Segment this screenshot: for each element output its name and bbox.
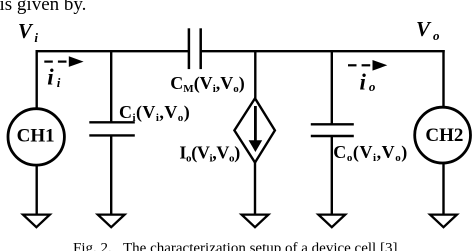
svg-text:is given by.: is given by.	[0, 0, 86, 15]
svg-text:CH1: CH1	[17, 126, 55, 147]
svg-text:CM(Vi,Vo): CM(Vi,Vo)	[170, 73, 244, 95]
svg-text:io: io	[360, 70, 376, 95]
svg-text:Io(Vi,Vo): Io(Vi,Vo)	[179, 142, 240, 164]
current arrow i_o (dashed)	[348, 60, 387, 71]
wire: I_o branch upper	[254, 51, 256, 99]
wire: right vertical (Vo node down to CH2)	[442, 50, 444, 106]
label I_o(Vi,Vo)	[179, 142, 240, 164]
caption: Fig. 2. The characterization setup of a device cell [3]	[73, 241, 397, 251]
current source arrow	[249, 106, 263, 152]
ground (C_i)	[98, 215, 125, 228]
wire: C_i branch lower	[110, 135, 112, 214]
svg-text:ii: ii	[47, 64, 60, 90]
wire: left vertical (Vi node down to CH1)	[36, 50, 38, 108]
svg-text:Co(Vi,Vo): Co(Vi,Vo)	[333, 142, 408, 164]
current source I_o diamond	[234, 98, 275, 162]
label C_i(Vi,Vo)	[119, 102, 190, 124]
wire: top rail left segment (Vi node to CM left plate)	[36, 50, 189, 52]
svg-text:Fig. 2. The characterization: Fig. 2. The characterization setup of a …	[73, 241, 397, 251]
svg-text:Vi: Vi	[18, 19, 39, 45]
wire: CH1 to ground	[36, 166, 38, 215]
svg-text:Vo: Vo	[416, 17, 440, 43]
source CH1 circle	[8, 109, 64, 165]
ground (CH2)	[430, 215, 457, 228]
svg-text:Ci(Vi,Vo): Ci(Vi,Vo)	[119, 102, 190, 124]
wire: C_i branch upper	[110, 51, 112, 122]
label CH1	[17, 126, 55, 147]
label C_M(Vi,Vo)	[170, 73, 244, 95]
wire: CH2 to ground	[442, 164, 444, 215]
wire: C_o branch upper	[331, 51, 333, 124]
node Vi label	[18, 19, 39, 45]
capacitor C_M plates	[189, 28, 201, 69]
ground (I_o)	[242, 215, 269, 228]
current arrow i_i (dashed)	[44, 56, 83, 67]
text fragment: is given by.	[0, 0, 86, 15]
label i_i	[47, 64, 60, 90]
wire: I_o branch lower	[254, 162, 256, 215]
wire: C_o branch lower	[331, 136, 333, 215]
label C_o(Vi,Vo)	[333, 142, 408, 164]
node Vo label	[416, 17, 440, 43]
label CH2	[425, 125, 463, 146]
capacitor C_i plates	[89, 122, 135, 135]
ground (C_o)	[318, 215, 345, 228]
svg-text:CH2: CH2	[425, 125, 463, 146]
source CH2 circle	[415, 107, 471, 163]
ground (CH1)	[23, 215, 50, 228]
label i_o	[360, 70, 376, 95]
capacitor C_o plates	[311, 124, 354, 136]
wire: top rail right segment (CM right plate to Vo node)	[201, 50, 445, 52]
